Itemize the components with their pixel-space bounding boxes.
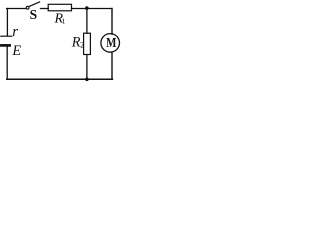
resistor R1 body — [48, 4, 71, 11]
wire switch to R1 — [41, 8, 49, 10]
svg-text:2: 2 — [80, 40, 84, 49]
wire right vertical upper — [111, 9, 113, 35]
node junction bottom (R2 return) — [85, 78, 89, 82]
switch S lever — [29, 2, 40, 7]
wire bottom horizontal — [7, 78, 113, 80]
svg-text:1: 1 — [62, 16, 66, 25]
resistor R2 body — [84, 33, 91, 54]
wire left vertical upper — [6, 9, 8, 36]
svg-text:S: S — [30, 7, 37, 22]
node junction top (R2 tap) — [85, 6, 89, 10]
wire top-left horizontal — [7, 8, 27, 10]
battery cell E short thick plate — [1, 44, 9, 47]
svg-text:E: E — [11, 43, 21, 59]
wire R2 branch upper — [86, 9, 88, 34]
wire left vertical lower — [6, 47, 8, 80]
svg-text:r: r — [12, 24, 18, 40]
battery cell E long plate — [1, 35, 12, 37]
motor M circle — [101, 34, 120, 53]
svg-text:M: M — [106, 36, 116, 51]
wire R1 to top-right corner — [72, 8, 113, 10]
switch S pivot contact — [26, 6, 29, 9]
wire R2 branch lower — [86, 55, 88, 80]
wire right vertical lower — [111, 52, 113, 79]
